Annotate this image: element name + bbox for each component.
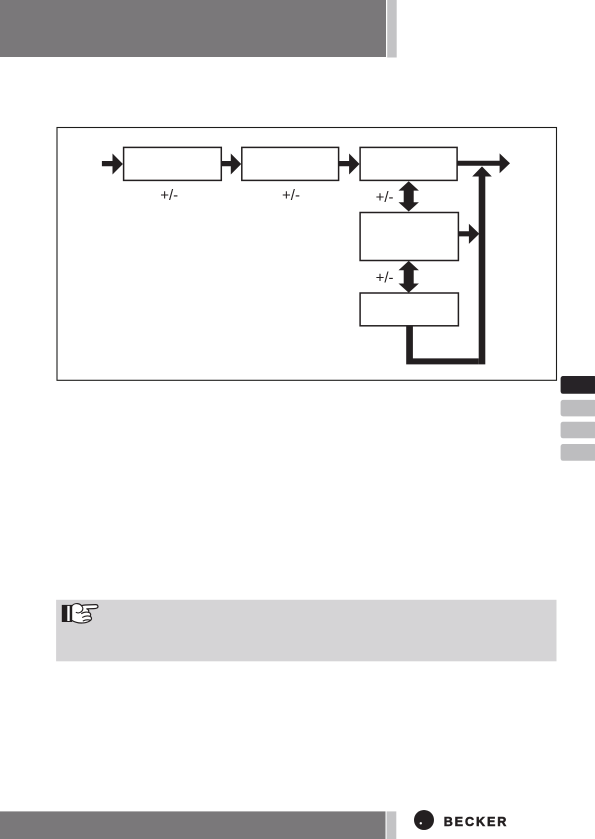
header accent stripe <box>387 0 397 58</box>
note hand icon <box>62 604 98 623</box>
Becker logo disc <box>414 810 434 830</box>
Becker logo disc highlight <box>420 822 422 824</box>
box 2 <box>242 147 339 180</box>
header bar <box>0 0 386 57</box>
box 1 <box>124 147 222 180</box>
arrow into box 1 <box>102 154 123 175</box>
arrow box2 to box3 <box>339 154 360 175</box>
up-down arrow between box 3 and box 4 <box>399 181 419 211</box>
svg-text:+/-: +/- <box>160 187 178 204</box>
svg-text:+/-: +/- <box>376 189 394 206</box>
box 5 <box>360 293 458 326</box>
index tab black <box>561 376 595 394</box>
up-down arrow between box 4 and box 5 <box>399 261 419 293</box>
index tab gray 1 <box>561 400 595 417</box>
box 3 <box>360 147 457 180</box>
return loop line from box 5 bottom <box>406 326 479 365</box>
index tab gray 3 <box>561 444 595 461</box>
note box <box>56 600 556 662</box>
footer bar <box>0 811 386 839</box>
return riser with up arrowhead <box>472 166 492 364</box>
output arrow right of box 3 <box>457 153 510 173</box>
svg-text:+/-: +/- <box>282 187 300 204</box>
svg-text:+/-: +/- <box>376 270 394 287</box>
index tab gray 2 <box>561 422 595 439</box>
box 4 <box>360 213 458 261</box>
svg-text:BECKER: BECKER <box>444 815 509 829</box>
arrow box4 to return line <box>458 224 479 244</box>
footer accent stripe <box>387 811 397 839</box>
flowchart frame <box>57 128 557 381</box>
arrow box1 to box2 <box>221 154 241 175</box>
